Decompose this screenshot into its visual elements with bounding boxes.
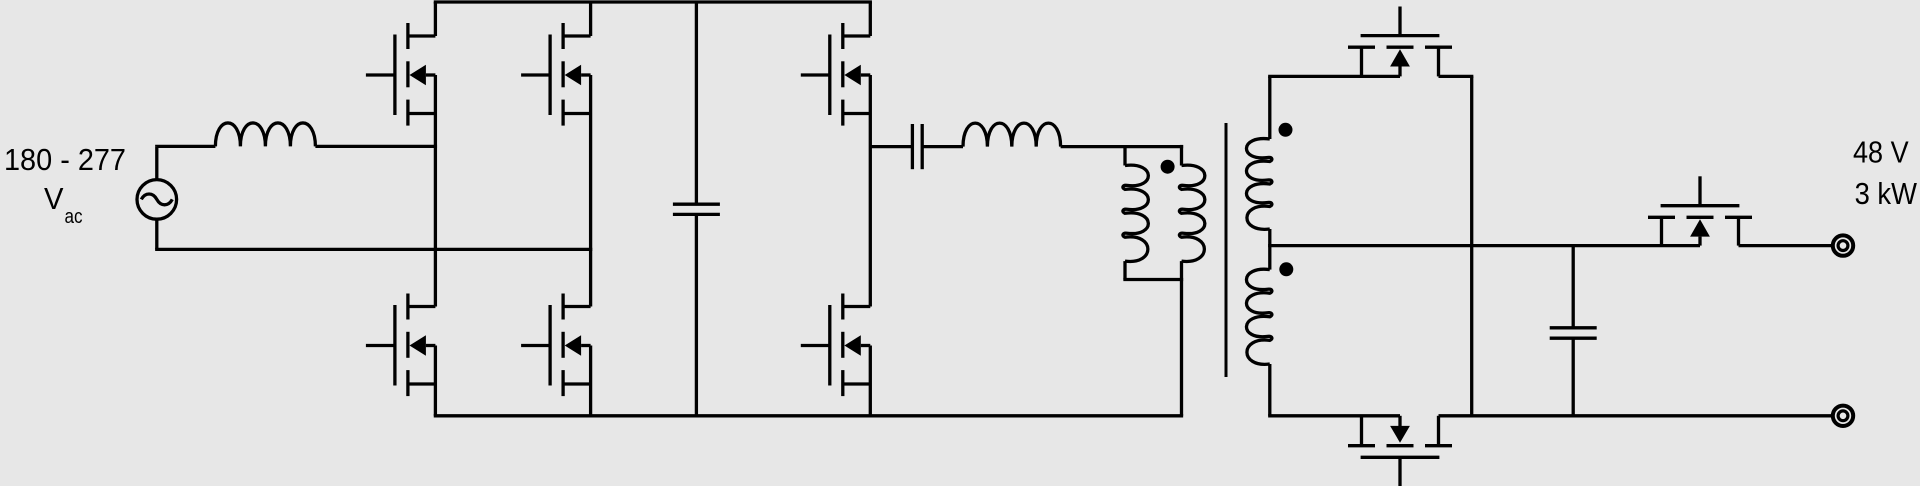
wire: leg1 Q2 source to bottom rail	[434, 384, 437, 416]
wire: resonant cap to resonant inductor	[922, 145, 963, 148]
svg-text:180 - 277: 180 - 277	[4, 142, 126, 177]
wire: half-bridge mid node vertical	[869, 114, 872, 307]
wire: ac bottom to bridge leg 2 mid node	[157, 248, 592, 250]
terminal: output positive	[1833, 235, 1853, 255]
wire: resonant inductor to transformer primary	[1061, 145, 1184, 148]
svg-text:48 V: 48 V	[1853, 134, 1909, 169]
wire: half-bridge drain to top rail	[869, 2, 872, 36]
wire: Q7 drain to output positive terminal	[1739, 244, 1832, 247]
wire: primary winding bottom stub	[1180, 261, 1183, 279]
wire: top DC rail	[434, 0, 872, 3]
ac source V1	[137, 180, 177, 220]
wire: half-bridge mid node to resonant cap	[870, 145, 912, 148]
wire: leg1 mid node to Q2 drain	[434, 146, 437, 306]
capacitor C1 (DC link)	[673, 204, 720, 214]
wire: magnetizing inductor bottom stub	[1123, 261, 1126, 279]
transistor SR1 (sync rectifier, top)	[1348, 7, 1452, 77]
wire: secondary top winding upper stub	[1268, 76, 1271, 139]
wire: center tap to output FET	[1268, 244, 1700, 247]
wire: leg1 Q1 source to mid node	[434, 114, 437, 147]
wire: leg2 mid node to Q4 drain	[589, 249, 592, 306]
wire: inductor to bridge leg 1 mid node	[315, 145, 437, 148]
wire: secondary bottom to SR2 source/body	[1268, 414, 1400, 417]
transistor Q5 (half-bridge high side)	[801, 23, 871, 126]
svg-text:3 kW: 3 kW	[1855, 176, 1918, 211]
wire: SR2 drain to output negative rail	[1439, 414, 1832, 417]
wire: leg2 Q4 source to bottom rail	[589, 384, 592, 416]
wire: leg2 Q3 source to mid node	[589, 114, 592, 250]
capacitor C3 (output)	[1550, 328, 1597, 338]
transistor Q2 (totem-pole leg1 low side)	[366, 294, 436, 397]
wire: ac source bottom lead	[155, 219, 158, 249]
terminal: output negative	[1833, 406, 1853, 426]
wire: secondary bottom winding lower stub	[1268, 364, 1271, 416]
wire: SR1 drain to right vertical	[1439, 75, 1474, 78]
svg-text:V: V	[44, 181, 64, 216]
transistor Q4 (totem-pole leg2 low side)	[521, 294, 591, 397]
transformer T1 core	[1225, 123, 1228, 377]
wire: leg2 drain to top rail	[589, 2, 592, 36]
transistor Q6 (half-bridge low side)	[801, 294, 871, 397]
polarity dot: secondary bottom	[1279, 262, 1293, 276]
transistor SR2 (sync rectifier, bottom)	[1348, 416, 1452, 486]
wire: secondary top winding to center tap	[1268, 229, 1271, 246]
capacitor C2 (resonant)	[912, 124, 922, 169]
polarity dot: secondary top	[1279, 123, 1293, 137]
wire: ac source top lead	[155, 146, 158, 179]
wire: bottom DC rail	[434, 414, 1183, 417]
wire: output cap top lead	[1572, 246, 1575, 328]
wire: secondary top winding to SR1 source/body	[1268, 75, 1400, 78]
wire: primary winding top stub	[1180, 145, 1183, 166]
polarity dot: primary	[1161, 160, 1175, 174]
wire: secondary bottom winding upper stub	[1268, 246, 1271, 270]
wire: leg1 drain to top rail	[434, 2, 437, 36]
transistor Q1 (totem-pole leg1 high side)	[366, 23, 436, 126]
wire: rectified rail vertical	[1470, 76, 1473, 415]
wire: ac top to inductor	[157, 145, 216, 147]
transformer T1 primary winding	[1179, 165, 1204, 261]
wire: magnetizing inductor top stub	[1123, 147, 1126, 166]
wire: dc-link cap top lead	[695, 2, 698, 204]
wire: half-bridge Q6 source to bottom rail	[869, 384, 872, 416]
wire: dc-link cap bottom lead	[695, 214, 698, 415]
inductor L2 (resonant)	[963, 123, 1061, 146]
wire: primary return to bottom rail	[1180, 280, 1183, 416]
transistor Q3 (totem-pole leg2 high side)	[521, 23, 591, 126]
transistor Q7 (output disconnect)	[1648, 176, 1752, 245]
wire: primary bottom connection	[1123, 278, 1183, 281]
transformer T1 secondary winding (bottom)	[1246, 269, 1271, 364]
transformer T1 secondary winding (top)	[1246, 139, 1271, 230]
inductor Lm (magnetizing)	[1123, 165, 1148, 261]
inductor L1 (input)	[215, 123, 315, 146]
wire: output cap bottom lead	[1572, 338, 1575, 416]
svg-text:ac: ac	[65, 206, 83, 228]
